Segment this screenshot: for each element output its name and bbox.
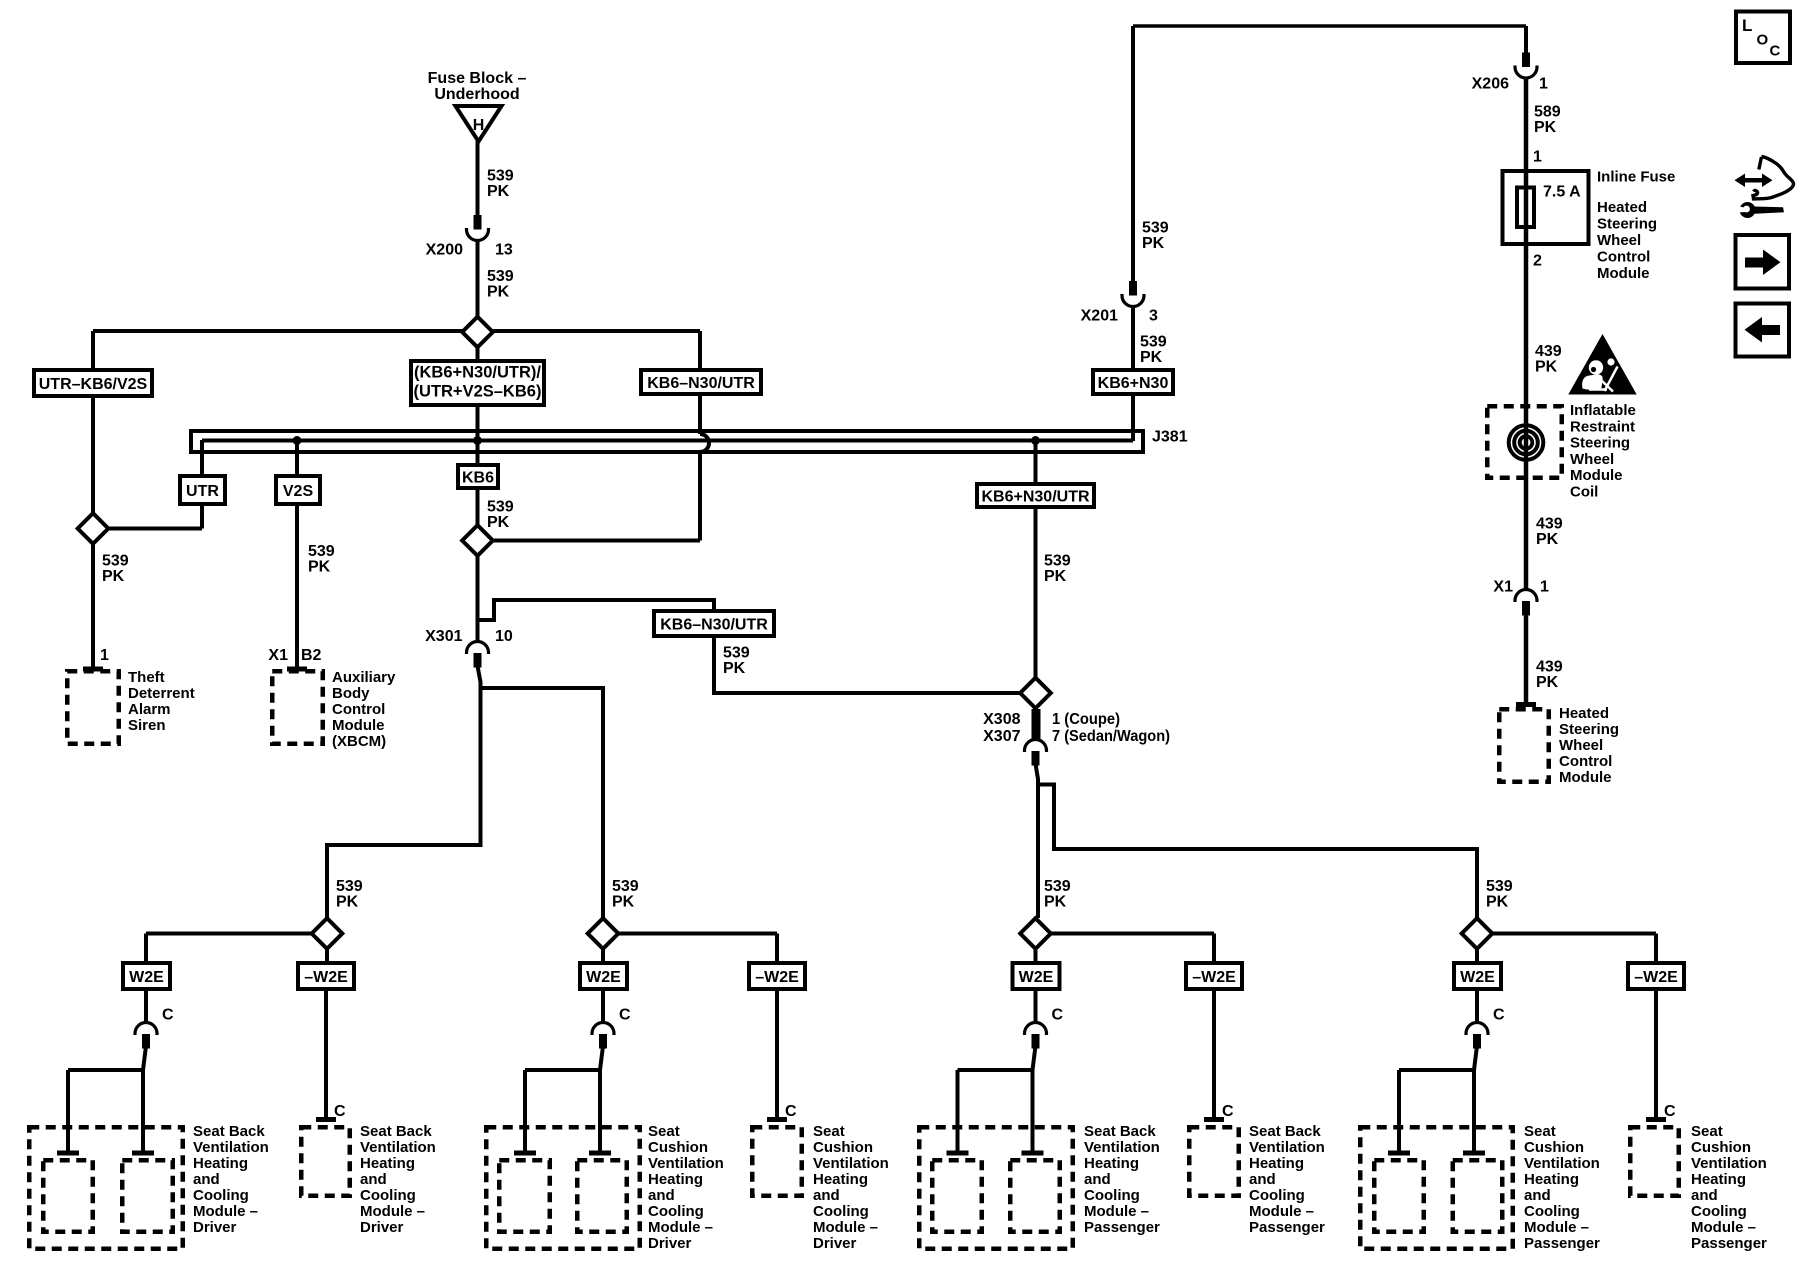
svg-text:Module: Module xyxy=(1597,265,1650,282)
svg-text:Heating: Heating xyxy=(193,1155,248,1172)
svg-text:Theft: Theft xyxy=(128,669,165,686)
svg-text:539: 539 xyxy=(308,543,335,560)
svg-text:Cushion: Cushion xyxy=(648,1139,708,1156)
svg-text:W2E: W2E xyxy=(1019,969,1054,986)
svg-text:Alarm: Alarm xyxy=(128,701,171,718)
svg-text:PK: PK xyxy=(1486,894,1509,911)
svg-text:Module –: Module – xyxy=(1691,1219,1756,1236)
svg-text:Cushion: Cushion xyxy=(1524,1139,1584,1156)
svg-text:Passenger: Passenger xyxy=(1249,1219,1325,1236)
svg-text:539: 539 xyxy=(1044,553,1071,570)
svg-text:1: 1 xyxy=(100,647,109,664)
svg-text:X206: X206 xyxy=(1472,76,1509,93)
svg-text:539: 539 xyxy=(487,499,514,516)
svg-text:10: 10 xyxy=(495,628,513,645)
svg-text:and: and xyxy=(1084,1171,1111,1188)
svg-text:Passenger: Passenger xyxy=(1524,1235,1600,1252)
svg-text:539: 539 xyxy=(1486,878,1513,895)
svg-text:C: C xyxy=(1052,1007,1064,1024)
svg-text:and: and xyxy=(193,1171,220,1188)
svg-text:Ventilation: Ventilation xyxy=(193,1139,269,1156)
svg-text:X308: X308 xyxy=(983,711,1020,728)
svg-text:Siren: Siren xyxy=(128,717,166,734)
svg-text:Seat: Seat xyxy=(648,1123,680,1140)
svg-text:439: 439 xyxy=(1536,516,1563,533)
svg-text:7.5 A: 7.5 A xyxy=(1543,184,1581,201)
svg-text:Steering: Steering xyxy=(1597,216,1657,233)
svg-text:PK: PK xyxy=(487,284,510,301)
svg-text:X307: X307 xyxy=(983,728,1020,745)
svg-text:Ventilation: Ventilation xyxy=(1249,1139,1325,1156)
svg-text:Heating: Heating xyxy=(813,1171,868,1188)
svg-text:1: 1 xyxy=(1540,579,1549,596)
svg-text:Passenger: Passenger xyxy=(1084,1219,1160,1236)
svg-text:Driver: Driver xyxy=(193,1219,237,1236)
svg-text:Module –: Module – xyxy=(813,1219,878,1236)
svg-text:Cooling: Cooling xyxy=(648,1203,704,1220)
svg-text:Wheel: Wheel xyxy=(1570,451,1614,468)
svg-text:Deterrent: Deterrent xyxy=(128,685,195,702)
svg-text:and: and xyxy=(648,1187,675,1204)
svg-text:Control: Control xyxy=(1597,249,1650,266)
svg-text:KB6+N30: KB6+N30 xyxy=(1098,375,1169,392)
svg-text:Cushion: Cushion xyxy=(1691,1139,1751,1156)
svg-text:539: 539 xyxy=(487,268,514,285)
svg-text:539: 539 xyxy=(102,553,129,570)
svg-text:Underhood: Underhood xyxy=(434,86,519,103)
svg-text:PK: PK xyxy=(612,894,635,911)
svg-text:PK: PK xyxy=(308,559,331,576)
svg-text:Heating: Heating xyxy=(648,1171,703,1188)
svg-text:H: H xyxy=(473,117,485,134)
svg-text:539: 539 xyxy=(1140,334,1167,351)
svg-text:Ventilation: Ventilation xyxy=(1084,1139,1160,1156)
svg-text:Wheel: Wheel xyxy=(1559,737,1603,754)
svg-text:3: 3 xyxy=(1149,308,1158,325)
svg-text:539: 539 xyxy=(1044,878,1071,895)
svg-text:Cooling: Cooling xyxy=(193,1187,249,1204)
svg-text:Module –: Module – xyxy=(1249,1203,1314,1220)
svg-text:Cooling: Cooling xyxy=(1084,1187,1140,1204)
svg-text:V2S: V2S xyxy=(283,483,314,500)
svg-text:Seat Back: Seat Back xyxy=(360,1123,432,1140)
svg-text:KB6+N30/UTR: KB6+N30/UTR xyxy=(981,489,1089,506)
svg-text:13: 13 xyxy=(495,242,513,259)
svg-text:PK: PK xyxy=(1142,235,1165,252)
svg-text:Module: Module xyxy=(1570,467,1623,484)
svg-text:439: 439 xyxy=(1535,343,1562,360)
svg-text:B2: B2 xyxy=(301,647,322,664)
svg-text:Heating: Heating xyxy=(360,1155,415,1172)
svg-text:–W2E: –W2E xyxy=(755,969,799,986)
svg-text:Ventilation: Ventilation xyxy=(1524,1155,1600,1172)
svg-text:PK: PK xyxy=(1535,359,1558,376)
svg-text:Control: Control xyxy=(1559,753,1612,770)
svg-text:C: C xyxy=(1770,43,1781,60)
svg-text:–W2E: –W2E xyxy=(304,969,348,986)
svg-text:1 (Coupe): 1 (Coupe) xyxy=(1052,711,1120,728)
svg-text:Body: Body xyxy=(332,685,370,702)
svg-text:and: and xyxy=(1249,1171,1276,1188)
svg-text:PK: PK xyxy=(487,514,510,531)
svg-text:Control: Control xyxy=(332,701,385,718)
svg-text:Coil: Coil xyxy=(1570,484,1598,501)
svg-text:Auxiliary: Auxiliary xyxy=(332,669,396,686)
svg-text:C: C xyxy=(785,1103,797,1120)
svg-text:PK: PK xyxy=(1044,894,1067,911)
svg-text:539: 539 xyxy=(336,878,363,895)
svg-text:PK: PK xyxy=(1536,531,1559,548)
svg-text:C: C xyxy=(1493,1007,1505,1024)
svg-text:Heated: Heated xyxy=(1597,199,1647,216)
svg-text:Heating: Heating xyxy=(1249,1155,1304,1172)
svg-text:1: 1 xyxy=(1539,76,1548,93)
svg-text:PK: PK xyxy=(1534,119,1557,136)
svg-text:W2E: W2E xyxy=(586,969,621,986)
svg-text:C: C xyxy=(334,1103,346,1120)
svg-text:C: C xyxy=(619,1007,631,1024)
svg-text:Seat Back: Seat Back xyxy=(193,1123,265,1140)
svg-text:Module –: Module – xyxy=(360,1203,425,1220)
svg-text:Seat: Seat xyxy=(813,1123,845,1140)
svg-text:PK: PK xyxy=(1140,349,1163,366)
svg-text:PK: PK xyxy=(1536,674,1559,691)
svg-text:UTR–KB6/V2S: UTR–KB6/V2S xyxy=(39,376,148,393)
svg-text:Cushion: Cushion xyxy=(813,1139,873,1156)
svg-text:KB6–N30/UTR: KB6–N30/UTR xyxy=(647,375,755,392)
svg-text:Seat Back: Seat Back xyxy=(1249,1123,1321,1140)
svg-text:Ventilation: Ventilation xyxy=(813,1155,889,1172)
svg-text:(KB6+N30/UTR)/: (KB6+N30/UTR)/ xyxy=(414,364,541,382)
svg-text:Module –: Module – xyxy=(1524,1219,1589,1236)
svg-text:C: C xyxy=(162,1007,174,1024)
svg-text:X1: X1 xyxy=(268,647,288,664)
svg-text:Module: Module xyxy=(1559,769,1612,786)
svg-text:Driver: Driver xyxy=(360,1219,404,1236)
svg-text:Cooling: Cooling xyxy=(1691,1203,1747,1220)
svg-text:and: and xyxy=(360,1171,387,1188)
svg-text:and: and xyxy=(1691,1187,1718,1204)
svg-text:PK: PK xyxy=(1044,568,1067,585)
svg-text:Wheel: Wheel xyxy=(1597,232,1641,249)
svg-text:Seat: Seat xyxy=(1524,1123,1556,1140)
svg-text:X1: X1 xyxy=(1493,579,1513,596)
svg-text:Fuse Block –: Fuse Block – xyxy=(428,70,527,87)
svg-text:X201: X201 xyxy=(1081,308,1118,325)
svg-text:C: C xyxy=(1664,1103,1676,1120)
svg-text:7 (Sedan/Wagon): 7 (Sedan/Wagon) xyxy=(1052,728,1170,745)
svg-text:Ventilation: Ventilation xyxy=(360,1139,436,1156)
svg-text:539: 539 xyxy=(487,168,514,185)
svg-text:J381: J381 xyxy=(1152,429,1188,446)
svg-text:Driver: Driver xyxy=(813,1235,857,1252)
svg-text:Ventilation: Ventilation xyxy=(1691,1155,1767,1172)
svg-text:Module: Module xyxy=(332,717,385,734)
svg-text:Cooling: Cooling xyxy=(1249,1187,1305,1204)
svg-text:539: 539 xyxy=(723,645,750,662)
svg-text:Restraint: Restraint xyxy=(1570,418,1635,435)
svg-text:Passenger: Passenger xyxy=(1691,1235,1767,1252)
svg-text:O: O xyxy=(1757,32,1769,49)
svg-text:UTR: UTR xyxy=(186,483,219,500)
svg-text:KB6–N30/UTR: KB6–N30/UTR xyxy=(660,617,768,634)
svg-text:2: 2 xyxy=(1533,253,1542,270)
svg-text:C: C xyxy=(1222,1103,1234,1120)
svg-text:Module –: Module – xyxy=(648,1219,713,1236)
svg-text:–W2E: –W2E xyxy=(1192,969,1236,986)
svg-text:Ventilation: Ventilation xyxy=(648,1155,724,1172)
svg-text:PK: PK xyxy=(336,894,359,911)
svg-text:KB6: KB6 xyxy=(462,470,494,487)
svg-text:Driver: Driver xyxy=(648,1235,692,1252)
svg-text:Inflatable: Inflatable xyxy=(1570,402,1636,419)
svg-text:1: 1 xyxy=(1533,149,1542,166)
svg-text:W2E: W2E xyxy=(129,969,164,986)
svg-text:–W2E: –W2E xyxy=(1634,969,1678,986)
svg-text:PK: PK xyxy=(487,183,510,200)
svg-text:Seat Back: Seat Back xyxy=(1084,1123,1156,1140)
svg-text:539: 539 xyxy=(1142,220,1169,237)
svg-text:W2E: W2E xyxy=(1460,969,1495,986)
svg-text:X200: X200 xyxy=(426,242,463,259)
svg-text:L: L xyxy=(1742,16,1752,35)
svg-text:PK: PK xyxy=(723,660,746,677)
svg-text:PK: PK xyxy=(102,568,125,585)
svg-text:Heating: Heating xyxy=(1084,1155,1139,1172)
svg-text:589: 589 xyxy=(1534,104,1561,121)
svg-text:Heating: Heating xyxy=(1691,1171,1746,1188)
svg-text:439: 439 xyxy=(1536,659,1563,676)
svg-text:Steering: Steering xyxy=(1570,435,1630,452)
svg-text:Heated: Heated xyxy=(1559,705,1609,722)
svg-text:(XBCM): (XBCM) xyxy=(332,733,386,750)
svg-text:Inline Fuse: Inline Fuse xyxy=(1597,169,1675,186)
svg-text:and: and xyxy=(1524,1187,1551,1204)
svg-text:Module –: Module – xyxy=(1084,1203,1149,1220)
svg-text:(UTR+V2S–KB6): (UTR+V2S–KB6) xyxy=(414,383,542,401)
svg-text:X301: X301 xyxy=(425,628,462,645)
svg-text:Steering: Steering xyxy=(1559,721,1619,738)
svg-text:Module –: Module – xyxy=(193,1203,258,1220)
svg-text:and: and xyxy=(813,1187,840,1204)
svg-text:Cooling: Cooling xyxy=(813,1203,869,1220)
svg-text:Heating: Heating xyxy=(1524,1171,1579,1188)
svg-text:Cooling: Cooling xyxy=(360,1187,416,1204)
svg-text:Cooling: Cooling xyxy=(1524,1203,1580,1220)
svg-text:Seat: Seat xyxy=(1691,1123,1723,1140)
svg-text:539: 539 xyxy=(612,878,639,895)
